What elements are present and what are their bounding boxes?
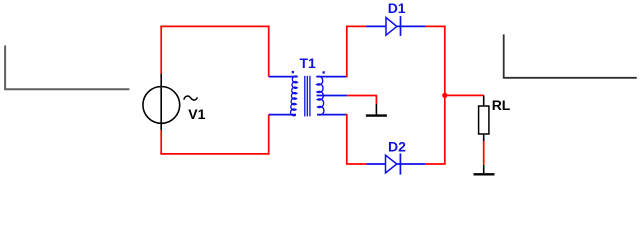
transformer T1 core lines xyxy=(305,76,310,117)
transformer T1 primary lead bottom (blue) xyxy=(269,114,296,116)
svg-text:T1: T1 xyxy=(300,55,317,71)
wire D1 row right segment xyxy=(425,25,445,27)
svg-text:D1: D1 xyxy=(388,0,406,16)
wire D2 row right segment xyxy=(425,163,445,165)
wire right vertical (D1 to D2 through output node) xyxy=(444,26,446,164)
transformer T1 primary polarity dot xyxy=(292,71,294,73)
diode D2 triangle xyxy=(386,155,397,173)
transformer T1 secondary polarity dot xyxy=(323,71,325,73)
ground center tap lead xyxy=(375,104,377,115)
wire left lower (source V1 to bottom corner) xyxy=(160,130,162,154)
transformer T1 secondary center tap lead (blue) xyxy=(317,95,348,97)
wire secondary top up to D1 row xyxy=(346,26,366,76)
diode D1 cathode bar xyxy=(400,16,402,36)
resistor RL top lead xyxy=(483,95,485,106)
scope trace icon right (output waveform L-axes) xyxy=(504,34,637,77)
transformer T1 secondary lead top (blue) xyxy=(316,76,346,78)
ground RL bar xyxy=(474,173,495,175)
diode D2 cathode bar xyxy=(399,153,401,174)
transformer T1 secondary winding coil xyxy=(316,76,324,115)
source V1 lead (black vertical through circle) xyxy=(160,74,162,130)
node output junction dot xyxy=(442,93,447,98)
svg-text:RL: RL xyxy=(492,97,511,113)
diode D1 triangle xyxy=(386,18,397,36)
diode D1 lead (blue horizontal) xyxy=(366,25,425,27)
transformer T1 primary lead top (blue) xyxy=(269,76,298,78)
wire center tap to ground xyxy=(347,96,376,105)
resistor RL bottom lead xyxy=(483,134,485,141)
ground RL lead xyxy=(483,165,485,173)
source V1 ac tilde symbol xyxy=(184,96,197,100)
transformer T1 secondary lead bottom (blue) xyxy=(317,114,346,116)
scope trace icon left (input waveform L-axes) xyxy=(5,46,129,90)
wire right upper of source loop xyxy=(268,26,270,76)
transformer T1 primary winding coil xyxy=(291,76,298,116)
svg-text:D2: D2 xyxy=(388,138,406,154)
source V1 circle xyxy=(143,87,180,124)
wire secondary bottom down to D2 row xyxy=(346,115,366,164)
wire node to RL xyxy=(445,94,484,96)
ground center tap bar xyxy=(366,114,387,116)
wire right lower of source loop xyxy=(268,115,270,154)
wire top of source loop xyxy=(160,25,269,27)
wire RL to ground xyxy=(483,141,485,165)
wire bottom of source loop xyxy=(160,153,269,155)
svg-text:V1: V1 xyxy=(188,106,205,122)
diode D2 lead (blue horizontal) xyxy=(367,163,426,165)
resistor RL body xyxy=(479,106,489,134)
wire left upper (top corner to source V1) xyxy=(160,26,162,74)
